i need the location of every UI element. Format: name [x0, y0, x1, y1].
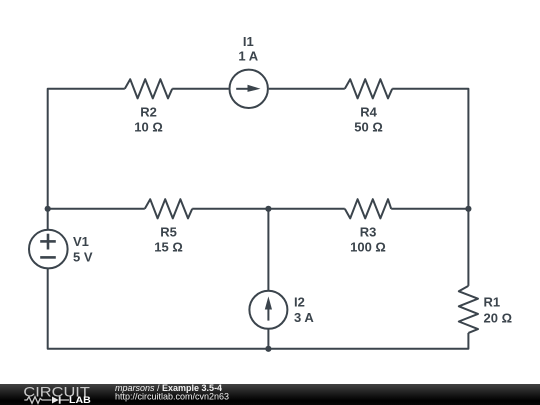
- svg-text:3 A: 3 A: [294, 310, 314, 325]
- wire middle: R5 to center node: [192, 208, 268, 210]
- svg-text:I2: I2: [294, 295, 305, 310]
- wire top: R2 to I1: [172, 88, 228, 90]
- wire center vertical: center node down to I2 top: [267, 209, 269, 290]
- svg-text:R3: R3: [360, 225, 377, 240]
- current source I1: [230, 70, 268, 108]
- current source I1 arrow: [236, 88, 250, 90]
- svg-text:LAB: LAB: [69, 394, 91, 405]
- svg-text:100 Ω: 100 Ω: [350, 240, 386, 255]
- wire left: V1 top up left side to top-left corner to R2: [48, 89, 125, 229]
- current source I2 arrow: [267, 307, 269, 321]
- node dot: left middle junction: [45, 206, 51, 212]
- wire middle: center node to R3: [268, 208, 344, 210]
- node dot: bottom center junction: [265, 346, 271, 352]
- svg-text:http://circuitlab.com/cvn2n63: http://circuitlab.com/cvn2n63: [115, 392, 229, 402]
- wire top: I1 to R4: [269, 88, 345, 90]
- svg-text:15 Ω: 15 Ω: [154, 240, 183, 255]
- resistor R3: [345, 199, 391, 218]
- wire middle: left node to R5: [48, 208, 145, 210]
- resistor R5: [145, 199, 192, 218]
- wire center vertical: I2 bottom to bottom rail: [267, 329, 269, 348]
- voltage source V1 plus sign: [40, 240, 56, 243]
- svg-text:V1: V1: [73, 234, 89, 249]
- svg-text:10 Ω: 10 Ω: [134, 120, 163, 135]
- wire right: middle node down to R1 top: [467, 209, 469, 286]
- svg-text:5 V: 5 V: [73, 249, 93, 264]
- logo resistor zigzag: [24, 397, 51, 404]
- logo wire to LAB: [61, 399, 70, 401]
- voltage source V1 minus sign: [40, 256, 56, 259]
- wire bottom: R1 bottom, bottom-right corner, bottom rail, bottom-left corner up to V1 bottom: [48, 269, 469, 349]
- svg-text:R1: R1: [484, 295, 501, 310]
- wire right: R4 to top-right corner down to middle node: [392, 89, 468, 209]
- svg-text:R5: R5: [160, 225, 177, 240]
- node dot: center middle junction: [265, 206, 271, 212]
- footer bar: [0, 384, 540, 405]
- logo diode bar: [59, 396, 61, 403]
- svg-text:R4: R4: [360, 105, 377, 120]
- wire middle: R3 to right node: [391, 208, 468, 210]
- svg-text:1 A: 1 A: [238, 49, 258, 64]
- logo diode triangle: [52, 397, 59, 404]
- svg-text:I1: I1: [243, 34, 254, 49]
- svg-text:R2: R2: [140, 105, 157, 120]
- current source I2: [249, 291, 287, 329]
- svg-text:20 Ω: 20 Ω: [484, 311, 513, 326]
- voltage source V1: [29, 230, 68, 269]
- node dot: right middle junction: [465, 206, 471, 212]
- resistor R4: [345, 79, 392, 98]
- resistor R2: [125, 79, 172, 98]
- svg-text:50 Ω: 50 Ω: [354, 120, 383, 135]
- resistor R1: [459, 286, 478, 333]
